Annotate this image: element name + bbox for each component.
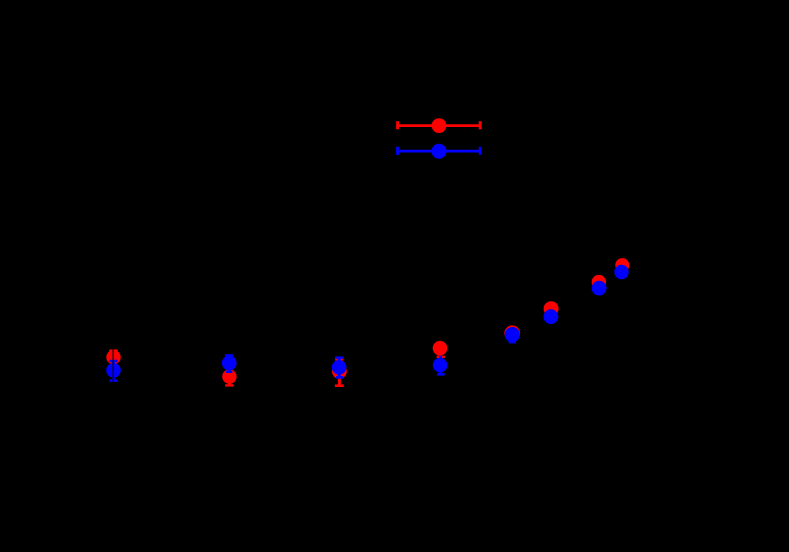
legend red errorbar line: [398, 124, 481, 127]
cluster 4 blue errorbar stem: [439, 356, 442, 375]
cluster 2 red marker: [222, 369, 236, 383]
legend blue marker: [432, 144, 447, 159]
cluster 2 blue bottom cap: [226, 371, 232, 373]
legend blue left cap: [396, 147, 399, 155]
cluster 1 red marker: [106, 350, 120, 364]
legend red marker: [432, 118, 447, 133]
cluster 2 red bottom cap: [225, 384, 234, 386]
cluster 5 blue bottom cap: [509, 341, 516, 343]
cluster 2 red errorbar stem: [228, 377, 231, 386]
cluster 1 blue errorbar stem: [112, 361, 115, 381]
cluster 4 blue bottom cap: [437, 373, 445, 376]
cluster 3 red marker: [332, 364, 347, 379]
cluster 7 blue marker: [592, 281, 607, 296]
cluster 3 red top cap: [335, 358, 343, 360]
cluster 1 blue marker: [106, 363, 121, 378]
legend red left cap: [396, 121, 399, 129]
cluster 1 red top cap: [109, 349, 118, 352]
legend red right cap: [479, 121, 482, 129]
cluster 5 blue errorbar stem: [511, 335, 514, 343]
cluster 2 blue marker: [222, 356, 237, 371]
cluster 1 dark overlay bar: [112, 349, 114, 382]
cluster 3 blue bottom cap: [336, 376, 343, 379]
cluster 3 blue errorbar stem: [338, 358, 341, 378]
legend blue errorbar line: [398, 150, 481, 153]
cluster 3 red bottom cap: [335, 384, 344, 387]
cluster 4 red bottom cap: [437, 356, 445, 358]
cluster 4 blue marker: [433, 358, 448, 373]
cluster 5 red marker: [504, 325, 520, 341]
cluster 7 red marker: [592, 275, 606, 289]
cluster 1 red errorbar stem: [112, 351, 115, 364]
cluster 2 blue top cap: [225, 354, 233, 356]
cluster 1 blue bottom cap: [109, 379, 117, 382]
cluster 1 blue top cap: [109, 360, 117, 363]
cluster 3 red errorbar stem: [338, 371, 341, 385]
cluster 3 blue marker: [332, 360, 347, 375]
cluster 6 red marker: [544, 301, 559, 316]
cluster 5 blue marker: [505, 327, 520, 342]
legend blue right cap: [479, 147, 482, 155]
cluster 4 red errorbar stem: [439, 348, 442, 357]
cluster 6 blue marker: [544, 309, 559, 324]
cluster 2 blue errorbar stem: [228, 355, 231, 371]
cluster 3 blue top cap: [335, 356, 344, 358]
cluster 8 blue marker: [614, 265, 628, 279]
cluster 4 red marker: [433, 341, 448, 356]
cluster 8 red marker: [615, 258, 629, 272]
